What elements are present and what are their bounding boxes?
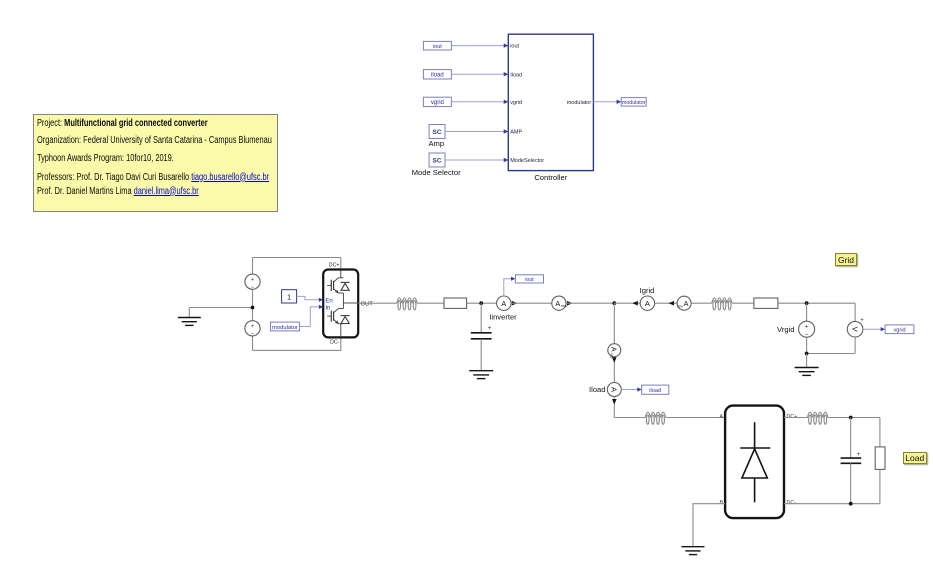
arrow after A2: [567, 301, 573, 306]
wire Arms2 to L2: [691, 302, 712, 304]
wire vgrid tag to controller: [451, 101, 504, 103]
svg-text:Vrgid: Vrgid: [777, 325, 794, 334]
wire rectifier B to ground: [693, 504, 725, 547]
voltmeter V1 vgrid: [847, 317, 864, 337]
wire voltmeter to bottom wire: [854, 337, 856, 354]
svg-text:vgrid: vgrid: [893, 328, 905, 334]
arrow toward junction (left): [632, 301, 638, 306]
wire rectifier DC+ to L4: [784, 417, 807, 419]
wire Igrid to Arms2: [655, 302, 678, 304]
resistor R3 (load): [875, 447, 885, 470]
svg-text:A: A: [501, 299, 506, 308]
voltage source Vrgid: [799, 321, 815, 339]
svg-text:Iload: Iload: [510, 72, 522, 78]
arrow after A1: [512, 301, 518, 306]
svg-text:A: A: [684, 299, 689, 308]
wire constant to En input: [297, 296, 319, 299]
ammeter A2 rms: [552, 296, 567, 310]
ammeter A5 rms (load branch): [608, 344, 621, 359]
svg-text:vgrid: vgrid: [510, 100, 522, 106]
wire controller output modulator: [593, 100, 621, 104]
wire DC- rail to inverter: [253, 336, 341, 350]
svg-text:iload: iload: [649, 388, 661, 394]
signal tag iload (measured): [642, 385, 669, 394]
svg-text:Igrid: Igrid: [640, 286, 655, 295]
label Vrgid: [777, 325, 794, 334]
wire inverter OUT to L1: [358, 302, 397, 304]
diode rectifier block D1: [719, 406, 797, 518]
arrow down after Iload meter: [612, 399, 617, 405]
wire DC+ rail to inverter: [253, 258, 341, 271]
resistor R1 (inverter filter): [444, 298, 467, 308]
wire L4 to load node: [828, 417, 880, 419]
svg-text:Iinverter: Iinverter: [489, 312, 517, 321]
wire grid bottom: [807, 353, 856, 355]
ammeter A4 rms (grid): [677, 296, 691, 310]
svg-text:ModeSelector: ModeSelector: [510, 158, 544, 164]
capacitor C2 (load) with + polarity: [841, 418, 862, 504]
signal tag vgrid (controller input): [423, 97, 451, 106]
svg-text:A: A: [645, 299, 650, 308]
inductor L2 (grid): [712, 298, 733, 310]
wire top right to voltmeter: [854, 303, 856, 321]
SC block Amp: [428, 125, 445, 149]
inductor L3 (load): [645, 412, 666, 424]
wire ground to DC midpoint: [189, 307, 252, 309]
resistor R2 (grid): [754, 298, 778, 308]
ground (rectifier B): [682, 547, 705, 555]
svg-text:V: V: [850, 327, 859, 332]
svg-text:Amp: Amp: [428, 139, 444, 148]
SC block Mode Selector: [412, 153, 461, 177]
wire A2 to junction: [566, 302, 614, 304]
ammeter A1 Iinverter: [497, 296, 511, 310]
svg-text:+: +: [860, 317, 864, 323]
node DC midpoint junction: [251, 306, 255, 310]
signal tag modulator (inverter input): [271, 322, 300, 331]
svg-text:modulator: modulator: [272, 325, 298, 331]
wire ammeter A1 signal to iout tag: [504, 277, 516, 297]
signal tag vgrid (measured): [885, 325, 914, 334]
svg-text:B: B: [719, 500, 723, 506]
svg-text:A: A: [719, 414, 723, 420]
label DC- (inverter bottom pin): [330, 340, 340, 346]
label OUT: [361, 302, 374, 308]
wire R2 to grid node: [778, 302, 855, 304]
svg-text:iout: iout: [510, 44, 519, 50]
capacitor C1 (filter) with + polarity: [471, 303, 492, 371]
wire Iload meter down to corner: [613, 397, 615, 418]
svg-text:rms: rms: [561, 304, 567, 308]
note box project description: [33, 114, 278, 212]
wire Arms3 to Iload meter: [613, 357, 615, 383]
wire junction to Igrid meter: [614, 302, 640, 304]
node grid junction top: [805, 301, 809, 305]
svg-text:A: A: [555, 299, 560, 308]
label DC+ (inverter top pin): [329, 263, 340, 269]
svg-text:+: +: [805, 324, 809, 331]
arrow down (load branch): [612, 357, 617, 363]
wire load node down to resistor: [879, 418, 881, 447]
svg-text:DC-: DC-: [787, 500, 797, 506]
wire A1 to Arms1: [511, 302, 552, 304]
wire grid node down to Vrgid: [806, 303, 808, 321]
wire DC link vertical: [252, 258, 254, 351]
svg-text:iout: iout: [433, 44, 442, 50]
signal tag iout (from Iinverter): [515, 275, 543, 283]
node AC bus junction: [612, 301, 616, 305]
svg-text:SC: SC: [432, 129, 441, 136]
wire L1 to R1: [417, 302, 444, 304]
wire L3 to rectifier A: [666, 417, 725, 419]
node load capacitor bottom: [849, 502, 853, 506]
svg-text:En: En: [325, 298, 332, 304]
arrow toward Igrid (left): [669, 301, 675, 306]
svg-text:SC: SC: [432, 158, 441, 165]
wire corner to L3: [614, 417, 645, 419]
label Iinverter: [489, 312, 517, 321]
svg-text:Iload: Iload: [589, 385, 605, 394]
wire R1 to capacitor node: [467, 302, 498, 304]
signal tag iload (controller input): [423, 70, 451, 79]
wire SC Mode Selector to controller: [445, 159, 504, 161]
voltage source V1 (upper DC): [245, 274, 260, 291]
svg-text:+: +: [857, 451, 861, 458]
wire resistor to DC- rail: [879, 469, 881, 503]
svg-text:rms: rms: [677, 304, 683, 308]
node capacitor junction: [479, 301, 483, 305]
wire iload tag to controller: [451, 73, 504, 75]
node load capacitor top: [849, 416, 853, 420]
svg-text:DC-: DC-: [330, 340, 340, 346]
svg-text:A: A: [610, 347, 617, 352]
svg-text:+: +: [251, 277, 255, 283]
svg-text:vgrid: vgrid: [431, 100, 444, 106]
voltage source V2 (lower DC): [245, 321, 260, 338]
ground (filter capacitor): [469, 371, 493, 379]
label Grid: [835, 253, 857, 266]
svg-text:modulator: modulator: [567, 100, 592, 106]
inductor L1 (inverter filter): [397, 298, 418, 310]
svg-text:AMP: AMP: [510, 130, 522, 136]
ground (DC link midpoint): [178, 308, 201, 326]
wire SC Amp to controller: [445, 131, 504, 133]
ground (grid): [795, 354, 819, 376]
svg-text:iout: iout: [525, 277, 534, 283]
svg-text:In: In: [325, 305, 330, 311]
svg-text:+: +: [251, 324, 255, 330]
inductor L4 (DC load filter): [807, 412, 828, 424]
ammeter A6 Iload: [607, 383, 621, 397]
label Load: [903, 452, 927, 464]
controller U1: [504, 34, 594, 182]
wire Vrgid to bottom node: [806, 337, 808, 353]
svg-text:Controller: Controller: [534, 173, 567, 182]
ammeter A3 Igrid: [640, 296, 654, 310]
signal tag modulator (output): [621, 98, 646, 107]
svg-text:OUT: OUT: [361, 302, 374, 308]
svg-text:−: −: [251, 332, 255, 338]
svg-text:modulator: modulator: [622, 100, 646, 106]
constant block 1: [282, 290, 297, 303]
svg-text:−: −: [251, 285, 255, 291]
svg-text:1: 1: [287, 292, 291, 301]
wire Iload meter signal to iload tag: [621, 387, 641, 391]
node grid junction bottom: [805, 352, 809, 356]
wire modulator tag to In input: [300, 307, 320, 327]
wire voltmeter signal to vgrid tag: [863, 327, 885, 331]
IGBT half-bridge inverter leg: [319, 270, 358, 338]
svg-text:+: +: [488, 325, 492, 332]
label Igrid: [640, 286, 655, 295]
svg-text:Mode Selector: Mode Selector: [412, 168, 461, 177]
wire iout tag to controller: [451, 45, 504, 47]
svg-text:A: A: [610, 387, 619, 392]
signal tag iout (controller input): [423, 41, 451, 50]
svg-text:DC+: DC+: [329, 263, 340, 269]
svg-text:iload: iload: [431, 73, 444, 79]
wire L2 to R2: [732, 302, 754, 304]
wire rectifier DC- rail: [784, 503, 880, 505]
wire junction down to Arms3: [613, 303, 615, 344]
label Iload: [589, 385, 605, 394]
